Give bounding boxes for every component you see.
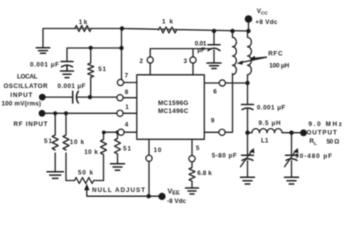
svg-text:1 k: 1 k — [162, 19, 173, 26]
svg-text:2: 2 — [140, 58, 144, 65]
svg-text:μF: μF — [197, 47, 205, 54]
svg-text:6: 6 — [213, 89, 217, 96]
svg-text:5: 5 — [196, 145, 200, 152]
svg-text:7: 7 — [125, 72, 129, 79]
svg-text:3: 3 — [184, 58, 188, 65]
svg-text:MC1496C: MC1496C — [158, 108, 189, 115]
svg-text:0.001 μF: 0.001 μF — [257, 104, 286, 111]
svg-text:9: 9 — [211, 118, 215, 125]
svg-text:9.5 μH: 9.5 μH — [259, 120, 281, 127]
svg-text:100 mV(rms): 100 mV(rms) — [2, 101, 42, 108]
svg-text:RF INPUT: RF INPUT — [14, 121, 48, 128]
svg-text:51: 51 — [98, 66, 106, 73]
svg-text:INPUT: INPUT — [10, 92, 32, 99]
svg-text:50 k: 50 k — [78, 170, 93, 177]
svg-text:+8 Vdc: +8 Vdc — [255, 19, 277, 26]
svg-text:1: 1 — [125, 104, 129, 111]
svg-text:50 Ω: 50 Ω — [327, 139, 340, 146]
svg-text:RFC: RFC — [268, 50, 283, 57]
svg-text:NULL ADJUST: NULL ADJUST — [92, 187, 145, 194]
svg-text:51: 51 — [123, 146, 131, 153]
svg-text:0.001 μF: 0.001 μF — [30, 61, 59, 68]
svg-text:6.8 k: 6.8 k — [197, 170, 212, 177]
svg-text:OUTPUT: OUTPUT — [307, 130, 337, 137]
svg-text:10 k: 10 k — [84, 149, 98, 156]
svg-text:5-80 pF: 5-80 pF — [212, 152, 237, 159]
svg-text:1 k: 1 k — [79, 19, 88, 26]
svg-text:OSCILLATOR: OSCILLATOR — [4, 83, 48, 90]
svg-text:9.0 MHz: 9.0 MHz — [309, 121, 342, 128]
svg-text:MC1596G: MC1596G — [158, 100, 188, 107]
svg-text:10 k: 10 k — [70, 139, 85, 146]
svg-text:-8 Vdc: -8 Vdc — [167, 198, 186, 205]
svg-text:10: 10 — [154, 147, 162, 154]
svg-text:L1: L1 — [261, 137, 269, 144]
svg-text:90-480 pF: 90-480 pF — [295, 153, 332, 160]
svg-text:0.001 μF: 0.001 μF — [58, 83, 86, 90]
svg-text:100 μH: 100 μH — [269, 63, 289, 70]
svg-text:8: 8 — [125, 89, 129, 96]
svg-text:LOCAL: LOCAL — [17, 73, 38, 80]
svg-text:51: 51 — [44, 138, 52, 145]
svg-text:4: 4 — [125, 122, 129, 129]
